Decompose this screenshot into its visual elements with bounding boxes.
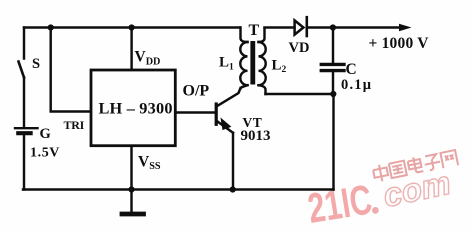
watermark dot of .com <box>372 207 379 214</box>
svg-text:VSS: VSS <box>138 154 161 173</box>
wire capacitor bottom <box>332 72 334 94</box>
wire TRI branch <box>51 28 90 112</box>
wire VDD pin <box>130 28 132 70</box>
svg-text:+ 1000 V: + 1000 V <box>369 35 430 52</box>
inductor L1 primary winding <box>241 28 248 43</box>
wire battery to bottom rail <box>23 135 25 190</box>
svg-text:0.1μ: 0.1μ <box>341 77 372 93</box>
wire L2 bottom to node <box>266 93 334 95</box>
svg-text:VDD: VDD <box>135 49 161 68</box>
transformer T core <box>250 41 255 85</box>
battery G plate long <box>15 127 38 129</box>
node output junction <box>330 24 336 30</box>
battery G plate short thick <box>18 131 30 135</box>
node bottom rail emitter junction <box>230 186 236 192</box>
ground <box>130 190 132 213</box>
transistor Q1 collector <box>218 88 241 106</box>
transistor Q1 base bar <box>215 104 218 124</box>
wire O/P to base <box>175 111 215 113</box>
IC LH-9300 <box>91 70 175 146</box>
svg-text:TRI: TRI <box>64 118 85 132</box>
wire L2 top to diode <box>265 26 295 28</box>
svg-text:O/P: O/P <box>183 83 210 100</box>
watermark chinese text 中国电子网 <box>372 149 458 183</box>
svg-text:C: C <box>346 61 357 78</box>
inductor L2 secondary winding <box>259 42 266 85</box>
svg-text:LH – 9300: LH – 9300 <box>99 99 173 118</box>
watermark 21IC <box>305 176 375 232</box>
svg-text:1.5V: 1.5V <box>30 146 60 161</box>
svg-text:9013: 9013 <box>241 128 271 144</box>
capacitor C plates <box>321 63 344 66</box>
node top rail TRI junction <box>48 24 54 30</box>
switch S <box>19 62 25 78</box>
transistor Q1 emitter with arrow <box>218 122 234 133</box>
wire switch to battery <box>23 78 25 127</box>
svg-text:L1: L1 <box>219 55 234 73</box>
wire node down to bottom rail <box>332 94 334 190</box>
diode VD <box>295 20 304 34</box>
watermark .com <box>380 164 454 214</box>
wire diode to output <box>308 26 402 28</box>
svg-text:21IC: 21IC <box>305 176 375 232</box>
svg-text:VD: VD <box>289 40 310 56</box>
node top rail VDD junction <box>129 24 135 30</box>
wire left branch upper (rail corner to switch) <box>23 28 25 59</box>
svg-text:G: G <box>40 126 51 142</box>
wire VSS pin <box>130 146 132 189</box>
node L2/C junction <box>330 91 336 97</box>
wire junction to capacitor <box>332 28 334 63</box>
svg-text:L2: L2 <box>272 57 287 75</box>
svg-text:T: T <box>249 22 260 39</box>
wire emitter to bottom rail <box>232 133 234 190</box>
wire bottom rail <box>23 188 334 190</box>
output arrow head <box>399 24 412 32</box>
node bottom rail VSS junction <box>128 186 134 192</box>
wire top rail <box>24 26 240 28</box>
svg-text:S: S <box>32 56 40 72</box>
